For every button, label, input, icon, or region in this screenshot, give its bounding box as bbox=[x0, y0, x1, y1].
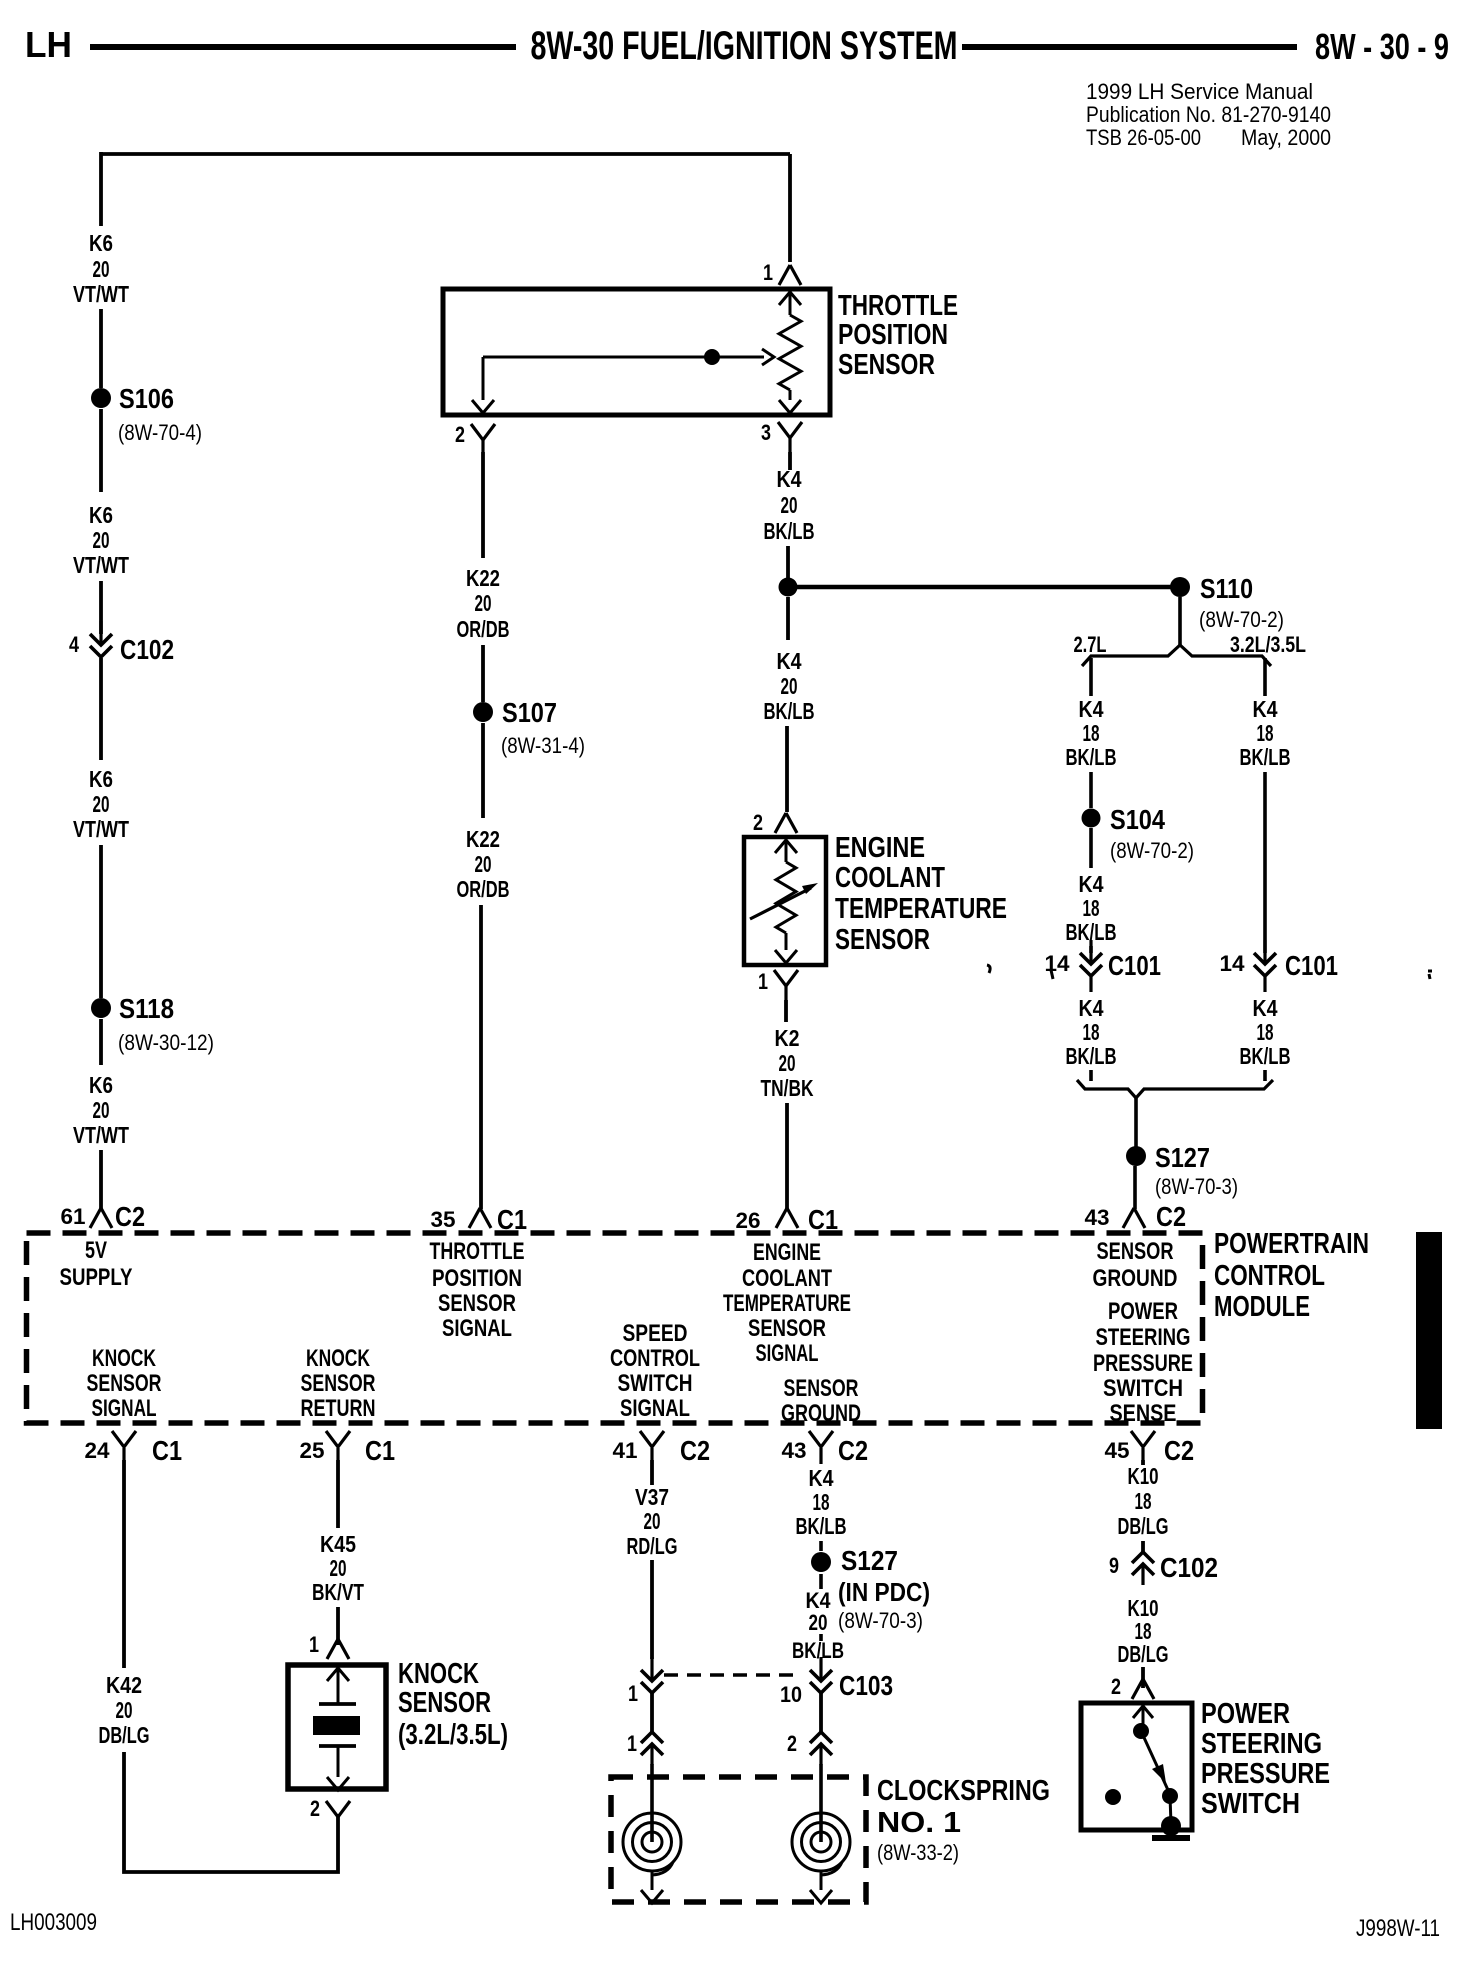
svg-text:20: 20 bbox=[809, 1610, 828, 1635]
PCM label THROTTLE POSITION SENSOR SIGNAL bbox=[430, 1238, 525, 1342]
ECT pin 2 connector bbox=[753, 810, 797, 835]
svg-text:8W - 30 - 9: 8W - 30 - 9 bbox=[1315, 26, 1449, 67]
merge bracket bbox=[1077, 1080, 1273, 1098]
PCM label ENGINE COOLANT TEMPERATURE SENSOR SIGNAL bbox=[723, 1239, 851, 1367]
svg-text:COOLANT: COOLANT bbox=[742, 1265, 832, 1292]
splice S104 bbox=[1082, 804, 1195, 863]
wire K42 bbox=[122, 1460, 126, 1668]
svg-text:20: 20 bbox=[93, 256, 110, 282]
PSPS switch symbol bbox=[1105, 1706, 1190, 1838]
svg-text:SIGNAL: SIGNAL bbox=[442, 1315, 512, 1342]
PCM label SENSOR GROUND (pin 43) bbox=[1093, 1238, 1178, 1292]
label K4 20 BK/LB bbox=[764, 648, 815, 724]
svg-text:C2: C2 bbox=[1164, 1435, 1194, 1466]
svg-text:C2: C2 bbox=[1156, 1201, 1186, 1232]
wire bbox=[650, 1560, 654, 1659]
wire into clockspring bbox=[650, 1764, 654, 1842]
publication info block bbox=[1086, 79, 1331, 150]
clockspring label bbox=[877, 1775, 1050, 1865]
knock sensor box bbox=[288, 1665, 386, 1789]
svg-text:18: 18 bbox=[1083, 1019, 1100, 1045]
svg-text:2: 2 bbox=[1111, 1674, 1121, 1699]
svg-text:SUPPLY: SUPPLY bbox=[60, 1264, 133, 1291]
svg-text:K4: K4 bbox=[809, 1465, 834, 1491]
svg-text:KNOCK: KNOCK bbox=[398, 1658, 479, 1690]
PCM pin 25 C1 bbox=[300, 1431, 396, 1466]
svg-text:2: 2 bbox=[787, 1731, 797, 1756]
wire bbox=[786, 597, 790, 640]
clockspring wire 2 exit arrow bbox=[810, 1885, 832, 1903]
svg-text:Publication No. 81-270-9140: Publication No. 81-270-9140 bbox=[1086, 102, 1331, 127]
label K4 20 BK/LB bbox=[792, 1588, 844, 1663]
svg-text:DB/LG: DB/LG bbox=[1118, 1641, 1169, 1667]
PCM pin 43 C2 (sensor ground) bbox=[1085, 1201, 1187, 1232]
wire K22 bbox=[481, 452, 485, 558]
svg-text:1: 1 bbox=[628, 1681, 638, 1706]
engine coolant temperature sensor box bbox=[744, 837, 826, 965]
svg-text:14: 14 bbox=[1045, 951, 1071, 976]
svg-text:S104: S104 bbox=[1110, 804, 1165, 835]
svg-text:20: 20 bbox=[475, 590, 492, 616]
TPS label bbox=[838, 290, 958, 381]
PCM label KNOCK SENSOR SIGNAL bbox=[87, 1345, 162, 1422]
scan speck 2 bbox=[1051, 970, 1053, 979]
wire bbox=[819, 1693, 823, 1732]
wire bbox=[99, 658, 103, 760]
svg-text:TN/BK: TN/BK bbox=[761, 1075, 814, 1101]
svg-text:1: 1 bbox=[763, 260, 773, 285]
wire K2 bbox=[784, 1000, 788, 1022]
knock sensor pin 2 connector bbox=[310, 1796, 350, 1821]
svg-text:C101: C101 bbox=[1285, 950, 1338, 981]
knock sensor element symbol bbox=[313, 1668, 360, 1790]
TPS pin 1 connector bbox=[763, 260, 801, 285]
svg-text:20: 20 bbox=[475, 851, 492, 877]
clockspring coil 1 bbox=[623, 1813, 681, 1890]
dashed wire bbox=[819, 1634, 823, 1641]
wire bbox=[99, 409, 103, 492]
svg-text:SENSOR: SENSOR bbox=[87, 1370, 162, 1397]
PCM label POWER STEERING PRESSURE SWITCH SENSE bbox=[1093, 1298, 1193, 1427]
wire bbox=[785, 1103, 789, 1209]
svg-text:S118: S118 bbox=[119, 993, 174, 1024]
label K4 20 BK/LB bbox=[764, 466, 815, 544]
svg-text:45: 45 bbox=[1105, 1438, 1130, 1463]
svg-text:K4: K4 bbox=[777, 648, 802, 674]
svg-text:SENSOR: SENSOR bbox=[438, 1290, 516, 1317]
svg-text:18: 18 bbox=[1083, 720, 1100, 746]
svg-text:K45: K45 bbox=[320, 1531, 356, 1557]
svg-text:VT/WT: VT/WT bbox=[73, 816, 129, 842]
connector grouping dashed link bbox=[664, 1673, 801, 1676]
svg-text:POWERTRAIN: POWERTRAIN bbox=[1214, 1228, 1369, 1260]
svg-text:TEMPERATURE: TEMPERATURE bbox=[835, 893, 1007, 925]
svg-text:41: 41 bbox=[613, 1438, 638, 1463]
svg-text:SPEED: SPEED bbox=[623, 1320, 688, 1347]
svg-text:VT/WT: VT/WT bbox=[73, 281, 129, 307]
svg-text:SWITCH: SWITCH bbox=[1201, 1788, 1300, 1820]
label K4 18 BK/LB bbox=[1066, 871, 1117, 945]
svg-text:BK/LB: BK/LB bbox=[796, 1513, 847, 1539]
svg-text:SENSOR: SENSOR bbox=[1097, 1238, 1174, 1265]
clockspring coil 2 bbox=[792, 1813, 850, 1890]
svg-text:K42: K42 bbox=[106, 1672, 142, 1698]
svg-text:TSB 26-05-00: TSB 26-05-00 bbox=[1086, 125, 1201, 150]
svg-text:K6: K6 bbox=[89, 766, 113, 792]
TPS wiper arm bbox=[472, 349, 774, 413]
svg-text:20: 20 bbox=[93, 1097, 110, 1123]
svg-text:24: 24 bbox=[85, 1438, 111, 1463]
svg-text:8W-30 FUEL/IGNITION SYSTEM: 8W-30 FUEL/IGNITION SYSTEM bbox=[531, 24, 958, 68]
svg-text:14: 14 bbox=[1220, 951, 1246, 976]
svg-text:(8W-70-3): (8W-70-3) bbox=[838, 1608, 923, 1633]
svg-text:CLOCKSPRING: CLOCKSPRING bbox=[877, 1775, 1050, 1807]
wire bbox=[1089, 772, 1093, 808]
svg-text:BK/LB: BK/LB bbox=[764, 698, 815, 724]
ECT thermistor symbol bbox=[775, 840, 797, 963]
splice S118 bbox=[91, 993, 214, 1055]
svg-text:K6: K6 bbox=[89, 230, 113, 256]
svg-text:(8W-30-12): (8W-30-12) bbox=[118, 1030, 214, 1055]
svg-text:SENSOR: SENSOR bbox=[301, 1370, 376, 1397]
knock sensor label bbox=[398, 1658, 508, 1751]
svg-text:K6: K6 bbox=[89, 1072, 113, 1098]
ECT variable arrow bbox=[750, 888, 811, 919]
svg-text:SENSOR: SENSOR bbox=[835, 924, 930, 956]
label K4 18 BK/LB bbox=[1066, 696, 1117, 770]
PCM name label bbox=[1214, 1228, 1369, 1323]
clockspring dashed box bbox=[611, 1777, 866, 1902]
label K42 20 DB/LG bbox=[99, 1672, 150, 1748]
PCM pin 26 C1 bbox=[736, 1204, 839, 1235]
svg-text:MODULE: MODULE bbox=[1214, 1291, 1310, 1323]
svg-text:S127: S127 bbox=[1155, 1142, 1210, 1173]
wire top horizontal from K6 branch to TPS pin 1 bbox=[100, 152, 790, 156]
wire bbox=[99, 845, 103, 998]
svg-text:BK/LB: BK/LB bbox=[1240, 1043, 1291, 1069]
svg-text:1: 1 bbox=[758, 969, 768, 994]
svg-text:(8W-31-4): (8W-31-4) bbox=[501, 733, 585, 758]
PCM pin 45 C2 bbox=[1105, 1431, 1195, 1466]
svg-text:SIGNAL: SIGNAL bbox=[756, 1340, 819, 1367]
svg-text:THROTTLE: THROTTLE bbox=[430, 1238, 525, 1265]
svg-text:SENSOR: SENSOR bbox=[748, 1315, 826, 1342]
wire bbox=[481, 645, 485, 702]
connector C102 pin 4 bbox=[69, 621, 174, 665]
wire bbox=[336, 1607, 340, 1645]
svg-text:TEMPERATURE: TEMPERATURE bbox=[723, 1290, 851, 1317]
svg-text:2: 2 bbox=[310, 1796, 320, 1821]
svg-text:BK/VT: BK/VT bbox=[312, 1579, 364, 1605]
svg-text:J998W-11: J998W-11 bbox=[1356, 1915, 1440, 1942]
svg-text:C102: C102 bbox=[1160, 1552, 1218, 1583]
wire bbox=[1089, 1070, 1093, 1081]
throttle position sensor box bbox=[443, 289, 830, 415]
svg-text:18: 18 bbox=[1083, 895, 1100, 921]
PCM label SPEED CONTROL SWITCH SIGNAL bbox=[610, 1320, 700, 1422]
wire K6 vertical segment 1 bbox=[99, 152, 103, 226]
svg-text:20: 20 bbox=[93, 527, 110, 553]
wire bbox=[99, 1150, 103, 1209]
svg-text:9: 9 bbox=[1109, 1553, 1119, 1578]
wire 3.2L/3.5L branch bbox=[1263, 658, 1267, 696]
svg-text:THROTTLE: THROTTLE bbox=[838, 290, 958, 322]
svg-text:61: 61 bbox=[61, 1204, 86, 1229]
svg-text:20: 20 bbox=[781, 673, 798, 699]
label K22 20 OR/DB bbox=[457, 565, 510, 642]
svg-text:K4: K4 bbox=[1079, 871, 1104, 897]
svg-text:S106: S106 bbox=[119, 383, 174, 414]
wire TPS pin 1 drop bbox=[788, 154, 792, 262]
svg-text:BK/LB: BK/LB bbox=[1066, 1043, 1117, 1069]
svg-text:2: 2 bbox=[753, 810, 763, 835]
ECT pin 1 connector bbox=[758, 969, 798, 1000]
svg-text:10: 10 bbox=[780, 1682, 802, 1707]
svg-text:C102: C102 bbox=[120, 634, 174, 665]
svg-text:OR/DB: OR/DB bbox=[457, 876, 510, 902]
power steering pressure switch box bbox=[1081, 1703, 1192, 1830]
label V37 20 RD/LG bbox=[627, 1484, 678, 1559]
wire bbox=[479, 905, 483, 1209]
svg-text:KNOCK: KNOCK bbox=[306, 1345, 370, 1372]
wire bbox=[650, 1693, 654, 1732]
svg-text:V37: V37 bbox=[635, 1484, 669, 1510]
PSPS pin 2 connector bbox=[1111, 1674, 1154, 1699]
svg-text:SWITCH: SWITCH bbox=[618, 1370, 693, 1397]
PCM pin 24 C1 bbox=[85, 1431, 183, 1466]
splice S107 bbox=[473, 697, 585, 758]
svg-text:CONTROL: CONTROL bbox=[1214, 1260, 1325, 1292]
label K4 18 BK/LB bbox=[796, 1465, 847, 1539]
svg-text:VT/WT: VT/WT bbox=[73, 552, 129, 578]
splice S127 (IN PDC) bbox=[811, 1545, 930, 1633]
svg-text:SENSOR: SENSOR bbox=[398, 1687, 491, 1719]
svg-text:PRESSURE: PRESSURE bbox=[1201, 1758, 1330, 1790]
svg-text:K4: K4 bbox=[1253, 995, 1278, 1021]
svg-text:May, 2000: May, 2000 bbox=[1241, 125, 1331, 150]
label K6 20 VT/WT bbox=[73, 766, 129, 842]
wire bbox=[99, 309, 103, 388]
svg-text:SWITCH: SWITCH bbox=[1103, 1375, 1183, 1402]
svg-text:STEERING: STEERING bbox=[1096, 1324, 1191, 1351]
connector C102 pin 9 bbox=[1109, 1552, 1218, 1585]
svg-text:C101: C101 bbox=[1108, 950, 1161, 981]
svg-text:K4: K4 bbox=[1079, 995, 1104, 1021]
svg-text:20: 20 bbox=[781, 492, 798, 518]
svg-text:LH: LH bbox=[25, 24, 72, 65]
TPS internal resistor with arrows bbox=[779, 292, 801, 413]
wire bbox=[1089, 946, 1093, 953]
TPS pin 3 connector bbox=[761, 420, 802, 452]
PCM pin 35 C1 bbox=[431, 1204, 528, 1235]
splice junction to S110 bbox=[779, 578, 798, 597]
svg-text:OR/DB: OR/DB bbox=[457, 616, 510, 642]
svg-text:1999 LH Service Manual: 1999 LH Service Manual bbox=[1086, 79, 1313, 104]
svg-text:GROUND: GROUND bbox=[1093, 1265, 1178, 1292]
wire bbox=[99, 1019, 103, 1065]
svg-text:20: 20 bbox=[93, 791, 110, 817]
wire bbox=[786, 546, 790, 580]
svg-text:GROUND: GROUND bbox=[781, 1400, 861, 1427]
svg-text:POSITION: POSITION bbox=[432, 1265, 522, 1292]
wire 2.7L branch bbox=[1089, 658, 1093, 696]
connector half pin 1 (upper) bbox=[628, 1657, 663, 1706]
svg-text:2.7L: 2.7L bbox=[1074, 632, 1107, 657]
label K6 20 VT/WT bbox=[73, 502, 129, 578]
label K45 20 BK/VT bbox=[312, 1531, 364, 1605]
svg-text:K22: K22 bbox=[466, 826, 500, 852]
svg-text:18: 18 bbox=[1135, 1488, 1152, 1514]
wire long drop bbox=[1263, 772, 1267, 953]
dashed wire to S127 bbox=[819, 1541, 823, 1551]
svg-text:20: 20 bbox=[779, 1050, 796, 1076]
svg-text:RETURN: RETURN bbox=[301, 1395, 376, 1422]
splice S106 bbox=[91, 383, 202, 445]
PCM label SENSOR GROUND (pin 43 bottom) bbox=[781, 1375, 861, 1427]
svg-text:SENSOR: SENSOR bbox=[838, 349, 935, 381]
wire bbox=[1141, 1541, 1145, 1552]
PCM pin 61 C2 bbox=[61, 1201, 146, 1232]
svg-text:POSITION: POSITION bbox=[838, 319, 948, 351]
svg-text:POWER: POWER bbox=[1201, 1698, 1290, 1730]
label K4 18 BK/LB bbox=[1066, 995, 1117, 1069]
dashed wire bbox=[819, 1574, 823, 1589]
svg-text:43: 43 bbox=[782, 1438, 807, 1463]
engine split bracket bbox=[1082, 645, 1271, 666]
wire bbox=[1141, 1667, 1145, 1688]
svg-text:C2: C2 bbox=[838, 1435, 868, 1466]
TPS pin 2 connector bbox=[455, 422, 495, 452]
PCM label 5V SUPPLY bbox=[60, 1237, 133, 1291]
svg-text:VT/WT: VT/WT bbox=[73, 1122, 129, 1148]
label K4 18 BK/LB bbox=[1240, 696, 1291, 770]
svg-text:25: 25 bbox=[300, 1438, 325, 1463]
wire bbox=[99, 581, 103, 634]
svg-text:KNOCK: KNOCK bbox=[92, 1345, 156, 1372]
svg-text:SENSE: SENSE bbox=[1110, 1400, 1177, 1427]
svg-text:1: 1 bbox=[309, 1632, 319, 1657]
knock sensor pin 1 connector bbox=[309, 1632, 349, 1659]
wire bbox=[481, 723, 485, 818]
svg-text:C1: C1 bbox=[152, 1435, 182, 1466]
svg-text:K22: K22 bbox=[466, 565, 500, 591]
label K4 18 BK/LB bbox=[1240, 995, 1291, 1069]
wire K45 bbox=[336, 1460, 340, 1528]
svg-text:C103: C103 bbox=[839, 1670, 893, 1701]
wire bbox=[1133, 1166, 1137, 1209]
svg-text:C2: C2 bbox=[680, 1435, 710, 1466]
wire bbox=[1263, 1070, 1267, 1081]
svg-text:CONTROL: CONTROL bbox=[610, 1345, 700, 1372]
wire bbox=[785, 726, 789, 812]
svg-text:K4: K4 bbox=[777, 466, 802, 492]
wire V37 bbox=[650, 1460, 654, 1485]
svg-text:(3.2L/3.5L): (3.2L/3.5L) bbox=[398, 1719, 508, 1751]
connector C101 pin 14 (3.2L/3.5L) bbox=[1220, 940, 1339, 992]
svg-text:SENSOR: SENSOR bbox=[784, 1375, 859, 1402]
svg-text:K4: K4 bbox=[1253, 696, 1278, 722]
connector half pin 1 (lower) bbox=[627, 1731, 663, 1765]
ECT label bbox=[835, 832, 1007, 956]
svg-text:35: 35 bbox=[431, 1207, 456, 1232]
svg-text:4: 4 bbox=[69, 632, 80, 657]
svg-text:K4: K4 bbox=[1079, 696, 1104, 722]
svg-text:C1: C1 bbox=[365, 1435, 395, 1466]
powertrain control module dashed box bbox=[27, 1233, 1203, 1423]
wire into clockspring bbox=[819, 1764, 823, 1842]
svg-text:S110: S110 bbox=[1200, 573, 1253, 604]
label K6 20 VT/WT (top) bbox=[73, 230, 129, 307]
svg-text:(8W-70-3): (8W-70-3) bbox=[1155, 1174, 1238, 1199]
edge index bar bbox=[1416, 1232, 1442, 1429]
svg-text:POWER: POWER bbox=[1108, 1298, 1178, 1325]
svg-text:18: 18 bbox=[1257, 1019, 1274, 1045]
header rule right bbox=[962, 44, 1297, 50]
svg-text:K10: K10 bbox=[1128, 1463, 1159, 1489]
svg-text:20: 20 bbox=[644, 1508, 661, 1534]
connector C101 pin 14 (2.7L) bbox=[1045, 940, 1162, 992]
svg-text:BK/LB: BK/LB bbox=[764, 518, 815, 544]
connector half pin 2 (lower) bbox=[787, 1731, 832, 1765]
scan speck 3 bbox=[1428, 971, 1432, 979]
splice S110 bbox=[1170, 573, 1284, 632]
wire K4 bbox=[788, 452, 792, 470]
svg-text:NO. 1: NO. 1 bbox=[877, 1807, 961, 1839]
svg-text:(8W-70-4): (8W-70-4) bbox=[118, 420, 202, 445]
PCM pin 41 C2 bbox=[613, 1431, 711, 1466]
svg-text:3: 3 bbox=[761, 420, 771, 445]
svg-text:3.2L/3.5L: 3.2L/3.5L bbox=[1230, 632, 1306, 657]
svg-text:(8W-70-2): (8W-70-2) bbox=[1110, 838, 1194, 863]
clockspring wire 1 exit arrow bbox=[641, 1885, 663, 1903]
svg-text:DB/LG: DB/LG bbox=[1118, 1513, 1169, 1539]
svg-text:ENGINE: ENGINE bbox=[753, 1239, 821, 1266]
PCM label KNOCK SENSOR RETURN bbox=[301, 1345, 376, 1422]
svg-text:18: 18 bbox=[813, 1489, 830, 1515]
PSPS label bbox=[1201, 1698, 1330, 1820]
svg-text:43: 43 bbox=[1085, 1205, 1110, 1230]
svg-text:C2: C2 bbox=[115, 1201, 145, 1232]
svg-text:1: 1 bbox=[627, 1731, 637, 1756]
svg-text:DB/LG: DB/LG bbox=[99, 1722, 150, 1748]
svg-text:K2: K2 bbox=[775, 1025, 800, 1051]
svg-text:ENGINE: ENGINE bbox=[835, 832, 925, 864]
svg-text:RD/LG: RD/LG bbox=[627, 1533, 678, 1559]
wire horizontal to S110 bbox=[788, 585, 1180, 590]
svg-text:S127: S127 bbox=[841, 1545, 898, 1576]
svg-text:2: 2 bbox=[455, 422, 465, 447]
wire from S110 down bbox=[1178, 597, 1182, 647]
svg-text:(8W-70-2): (8W-70-2) bbox=[1199, 607, 1284, 632]
svg-text:26: 26 bbox=[736, 1208, 761, 1233]
svg-text:K6: K6 bbox=[89, 502, 113, 528]
label K22 20 OR/DB bbox=[457, 826, 510, 902]
svg-text:LH003009: LH003009 bbox=[10, 1909, 97, 1936]
svg-text:SIGNAL: SIGNAL bbox=[92, 1395, 157, 1422]
wire K10 bbox=[1141, 1460, 1145, 1465]
svg-text:18: 18 bbox=[1257, 720, 1274, 746]
header rule left bbox=[90, 44, 516, 50]
svg-text:(IN PDC): (IN PDC) bbox=[838, 1577, 930, 1607]
label K10 18 DB/LG bbox=[1118, 1463, 1169, 1539]
PCM pin 43 C2 (bottom) bbox=[782, 1431, 869, 1466]
svg-text:BK/LB: BK/LB bbox=[792, 1638, 844, 1663]
svg-text:(8W-33-2): (8W-33-2) bbox=[877, 1840, 959, 1865]
svg-text:STEERING: STEERING bbox=[1201, 1728, 1322, 1760]
svg-text:SIGNAL: SIGNAL bbox=[620, 1395, 690, 1422]
svg-text:20: 20 bbox=[330, 1555, 347, 1581]
svg-text:5V: 5V bbox=[85, 1237, 107, 1264]
